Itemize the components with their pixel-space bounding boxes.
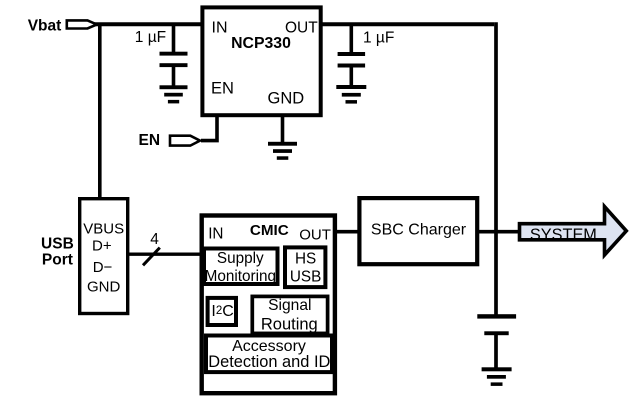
bus wire USB Port to CMIC IN	[129, 252, 203, 255]
svg-text:D+: D+	[92, 238, 112, 255]
SBC Charger block	[359, 198, 477, 264]
wire input capacitor bottom stem	[172, 67, 176, 87]
wire input capacitor top stem	[172, 24, 176, 52]
svg-text:Detection and ID: Detection and ID	[208, 353, 330, 371]
svg-text:Supply: Supply	[217, 250, 264, 267]
wire NCP330 OUT to right vertical rail	[319, 22, 494, 26]
output arrow SYSTEM	[520, 207, 627, 255]
svg-text:USB: USB	[290, 269, 321, 286]
svg-text:IN: IN	[208, 225, 223, 242]
svg-text:USB: USB	[41, 236, 74, 253]
HS USB sub-block	[285, 247, 325, 287]
USB Port connector box	[80, 199, 128, 314]
output capacitor: top plate	[477, 314, 516, 318]
svg-text:VBUS: VBUS	[83, 220, 124, 237]
regulator U1 NCP330 box	[202, 7, 320, 115]
svg-text:Monitoring: Monitoring	[205, 268, 276, 285]
svg-text:IN: IN	[212, 20, 228, 37]
svg-text:HS: HS	[295, 250, 316, 267]
capacitor 1 uF input: bottom plate	[160, 63, 188, 67]
svg-text:GND: GND	[268, 90, 305, 108]
svg-text:SYSTEM: SYSTEM	[530, 226, 597, 244]
svg-text:SBC Charger: SBC Charger	[371, 221, 467, 238]
wire GND pin of NCP330 down	[281, 113, 285, 143]
ground for output capacitor	[482, 367, 512, 386]
svg-text:I2C: I2C	[211, 303, 233, 320]
svg-text:1 µF: 1 µF	[363, 30, 394, 47]
bus width slash	[143, 248, 160, 266]
CMIC block box	[202, 216, 335, 394]
wire right vertical rail down to output capacitor	[494, 22, 498, 316]
svg-text:GND: GND	[87, 279, 121, 296]
svg-text:Vbat: Vbat	[28, 17, 62, 34]
wire CMIC OUT to SBC Charger	[334, 230, 361, 234]
capacitor 1 uF output: bottom plate	[338, 64, 366, 68]
svg-text:4: 4	[150, 231, 159, 248]
svg-text:Routing: Routing	[261, 315, 318, 333]
ground for NCP330 GND pin	[268, 142, 297, 160]
Signal Routing sub-block	[252, 296, 327, 333]
Supply Monitoring sub-block	[204, 249, 278, 285]
capacitor 1 uF output: top plate	[338, 52, 366, 56]
svg-text:OUT: OUT	[299, 226, 331, 243]
svg-text:CMIC: CMIC	[250, 222, 289, 239]
I2C sub-block	[208, 298, 236, 325]
wire Vbat to NCP330 IN	[94, 22, 204, 26]
wire Vbat junction down to USB Port VBUS	[98, 24, 102, 200]
Accessory Detection and ID sub-block	[206, 336, 332, 373]
svg-text:Port: Port	[42, 251, 73, 268]
svg-text:EN: EN	[139, 132, 161, 149]
wire output capacitor to ground	[494, 335, 498, 370]
wire output capacitor bottom stem	[349, 67, 353, 86]
wire SBC Charger to SYSTEM arrow	[476, 230, 522, 234]
ground for output capacitor	[336, 85, 366, 104]
svg-text:D−: D−	[93, 259, 113, 276]
wire output capacitor top stem	[349, 24, 353, 53]
output capacitor: bottom plate	[484, 331, 508, 335]
svg-text:1 µF: 1 µF	[135, 29, 166, 46]
svg-text:EN: EN	[211, 80, 234, 98]
ground for input capacitor	[160, 85, 188, 103]
wire EN pin of NCP330 to EN tag	[201, 113, 217, 141]
svg-text:Signal: Signal	[268, 297, 311, 314]
capacitor 1 uF input: top plate	[160, 52, 188, 56]
input tag Vbat	[67, 20, 97, 28]
input tag EN	[170, 136, 200, 146]
svg-text:NCP330: NCP330	[231, 35, 291, 52]
